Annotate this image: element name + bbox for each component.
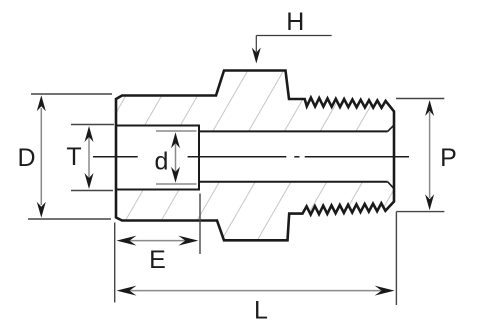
- dimension D line: [40, 108, 42, 205]
- dimension L line: [128, 290, 383, 292]
- dimension H leader: [256, 36, 331, 53]
- svg-text:H: H: [286, 8, 304, 36]
- dimension P line: [429, 112, 431, 198]
- dimension D extension lines: [28, 94, 112, 219]
- dimension T extension lines: [71, 125, 114, 191]
- H arrowhead: [252, 48, 261, 64]
- counterbore (socket): [116, 126, 199, 190]
- dimension d line: [175, 140, 177, 175]
- dimension E line: [128, 240, 186, 242]
- svg-text:T: T: [66, 143, 81, 171]
- dimension P extension lines: [396, 99, 444, 212]
- outer profile of fitting body: [116, 71, 394, 241]
- dimension T line: [88, 135, 90, 180]
- dimension E extension lines: [115, 194, 200, 303]
- dimension L extension line right: [395, 212, 397, 305]
- centerline: [93, 156, 409, 158]
- svg-text:E: E: [149, 246, 166, 274]
- end chamfer lines: [388, 125, 394, 131]
- svg-text:D: D: [17, 144, 35, 172]
- svg-text:P: P: [440, 144, 457, 172]
- svg-text:d: d: [155, 148, 169, 176]
- svg-text:L: L: [254, 297, 268, 325]
- through bore: [199, 130, 388, 132]
- dimension d extension lines: [156, 131, 197, 184]
